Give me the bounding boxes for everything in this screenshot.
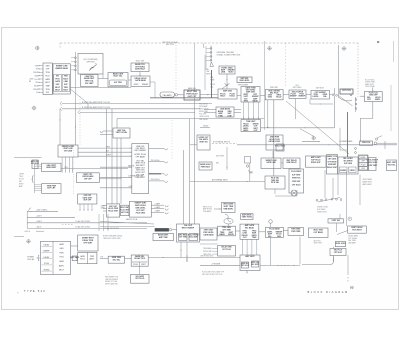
- svg-text:OUT TIME: OUT TIME: [179, 237, 188, 239]
- svg-text:AMPL: AMPL: [375, 98, 381, 101]
- svg-text:CAL AMPL: CAL AMPL: [163, 94, 172, 97]
- svg-text:PICK OFF: PICK OFF: [199, 114, 206, 116]
- svg-text:AMPL: AMPL: [90, 258, 95, 261]
- svg-text:PWR UNIT: PWR UNIT: [270, 87, 278, 89]
- svg-text:GATE BASE: GATE BASE: [203, 234, 214, 237]
- svg-text:ALT: ALT: [106, 150, 109, 153]
- svg-text:AMPL: AMPL: [59, 264, 64, 267]
- svg-text:LINE: LINE: [221, 72, 226, 74]
- svg-text:HOLD: HOLD: [80, 259, 86, 261]
- svg-text:+ GATE: + GATE: [154, 206, 161, 209]
- svg-text:+150 V: +150 V: [36, 221, 43, 223]
- svg-text:SIGNAL TO AMPLIFIER UNIT: SIGNAL TO AMPLIFIER UNIT: [217, 53, 242, 56]
- svg-text:GEN: GEN: [268, 97, 273, 99]
- svg-text:GATE BASE: GATE BASE: [135, 79, 147, 82]
- svg-text:SUP VERT: SUP VERT: [292, 174, 301, 176]
- svg-text:-150 V: -150 V: [36, 227, 42, 229]
- svg-text:A VERTICAL AMPLIFIER PLUG IN: A VERTICAL AMPLIFIER PLUG IN: [82, 101, 111, 104]
- svg-text:SEL BASE: SEL BASE: [245, 226, 255, 229]
- svg-text:TIME: TIME: [249, 173, 253, 175]
- svg-text:TIME LINE: TIME LINE: [203, 254, 211, 256]
- svg-text:OFF VERT: OFF VERT: [83, 243, 93, 245]
- svg-text:TO ALL SECTIONS: TO ALL SECTIONS: [75, 220, 91, 223]
- svg-text:GATE LINE: GATE LINE: [266, 161, 276, 164]
- svg-text:PICK SEL: PICK SEL: [271, 182, 280, 184]
- svg-text:TO ALL SECTIONS: TO ALL SECTIONS: [104, 227, 120, 230]
- svg-text:TRIG SIG A: TRIG SIG A: [151, 159, 161, 162]
- svg-text:CRT HOLD: CRT HOLD: [292, 184, 301, 186]
- svg-text:120V AC: 120V AC: [27, 258, 35, 261]
- svg-text:TRIG: TRIG: [106, 147, 111, 149]
- svg-text:PLUG BASE: PLUG BASE: [269, 228, 280, 231]
- svg-text:AMP GEN: AMP GEN: [223, 89, 232, 92]
- svg-text:PWR PICK: PWR PICK: [292, 178, 301, 180]
- svg-text:DRIVE: DRIVE: [350, 170, 356, 172]
- svg-text:DELAY: DELAY: [203, 124, 209, 127]
- svg-text:HOLD UNIT: HOLD UNIT: [108, 211, 119, 213]
- svg-text:GEN SWEEP CRT: GEN SWEEP CRT: [105, 277, 118, 279]
- svg-text:SIG PICK: SIG PICK: [314, 240, 322, 242]
- svg-text:VERT OUT: VERT OUT: [251, 262, 259, 264]
- svg-text:GATE: GATE: [59, 243, 65, 246]
- svg-text:PLUG: PLUG: [361, 164, 366, 166]
- svg-text:GATE: GATE: [45, 78, 51, 81]
- svg-text:CRT GATE: CRT GATE: [328, 158, 337, 161]
- svg-text:MULT CAL: MULT CAL: [113, 75, 123, 78]
- svg-text:OFF OFF: OFF OFF: [84, 179, 93, 181]
- svg-text:DRIVE LINE: DRIVE LINE: [199, 111, 208, 113]
- svg-text:GATE: GATE: [59, 260, 65, 263]
- svg-text:HOLD: HOLD: [276, 97, 282, 99]
- svg-text:LINE BASE: LINE BASE: [220, 107, 231, 110]
- svg-text:TO ALL SECTIONS: TO ALL SECTIONS: [75, 225, 91, 228]
- svg-text:DELAY: DELAY: [44, 244, 51, 247]
- svg-text:BASE: BASE: [219, 233, 225, 236]
- svg-text:CRT TIME: CRT TIME: [222, 229, 231, 231]
- svg-text:VERT: VERT: [35, 65, 39, 67]
- svg-text:+ GATE: + GATE: [154, 203, 161, 206]
- svg-text:SWEEP: SWEEP: [290, 96, 298, 98]
- svg-text:MULT: MULT: [228, 72, 234, 74]
- svg-text:OFF PLUG: OFF PLUG: [135, 278, 145, 280]
- svg-text:TIME UNIT: TIME UNIT: [246, 121, 256, 123]
- svg-text:SUP CRT: SUP CRT: [47, 188, 56, 190]
- svg-text:TRIG: TRIG: [64, 76, 69, 78]
- svg-text:CRT HOLD: CRT HOLD: [241, 265, 250, 267]
- svg-text:UNIT CAL: UNIT CAL: [121, 211, 129, 214]
- svg-text:M SWEEP GATE: M SWEEP GATE: [340, 140, 354, 143]
- svg-text:OUT: OUT: [100, 257, 103, 259]
- svg-text:CAL: CAL: [210, 85, 214, 88]
- svg-text:CRT PICK: CRT PICK: [342, 90, 352, 92]
- svg-text:DRIVE UNIT: DRIVE UNIT: [203, 251, 212, 253]
- svg-text:GATE: GATE: [55, 80, 61, 83]
- svg-text:PWR: PWR: [59, 252, 64, 254]
- svg-text:OUT BASE: OUT BASE: [314, 231, 324, 234]
- svg-text:VERT HORIZ: VERT HORIZ: [242, 217, 252, 219]
- svg-text:PWR UNIT: PWR UNIT: [292, 181, 301, 183]
- svg-text:PWR TIME: PWR TIME: [291, 231, 301, 233]
- svg-text:PLUG: PLUG: [133, 264, 138, 266]
- svg-text:SAWTOOTH A: SAWTOOTH A: [126, 218, 138, 221]
- svg-text:+12.6 V: +12.6 V: [24, 231, 31, 233]
- svg-text:SUP MULT: SUP MULT: [316, 88, 324, 90]
- svg-text:SIG TRIG: SIG TRIG: [114, 82, 122, 84]
- svg-text:OUT PLUG: OUT PLUG: [222, 249, 231, 251]
- svg-text:GEN DELAY: GEN DELAY: [286, 161, 297, 164]
- svg-text:TYPE 543: TYPE 543: [24, 289, 46, 293]
- svg-text:VERT SIG: VERT SIG: [199, 141, 208, 143]
- svg-text:HOLD: HOLD: [230, 96, 236, 98]
- svg-text:SEL UNIT HORIZ CRT PICK: SEL UNIT HORIZ CRT PICK: [202, 274, 223, 276]
- svg-text:HORIZ VERT: HORIZ VERT: [367, 165, 377, 167]
- svg-text:VERT SIG: VERT SIG: [332, 220, 341, 222]
- svg-text:AMPL AMPL: AMPL AMPL: [363, 183, 373, 186]
- svg-text:TRIG SIG B: TRIG SIG B: [151, 179, 161, 181]
- svg-text:CRT LINE: CRT LINE: [64, 150, 73, 152]
- svg-text:TIME LEVEL: TIME LEVEL: [317, 211, 327, 213]
- svg-text:BASE HOLD: BASE HOLD: [200, 163, 211, 166]
- svg-text:TIME: TIME: [218, 115, 223, 117]
- svg-text:REST SWEEP: REST SWEEP: [182, 227, 195, 229]
- svg-text:B VERTICAL AMPLIFIER PLUG IN: B VERTICAL AMPLIFIER PLUG IN: [82, 106, 111, 109]
- svg-text:LINE HORIZ GRID: LINE HORIZ GRID: [200, 256, 214, 258]
- svg-text:A EXTERNAL INPUT: A EXTERNAL INPUT: [212, 179, 228, 182]
- svg-text:E EXTERNAL INPUTS: E EXTERNAL INPUTS: [213, 140, 231, 143]
- svg-text:VERT TRIG: VERT TRIG: [314, 243, 323, 245]
- svg-text:REST PLUG: REST PLUG: [203, 207, 213, 209]
- svg-text:GRID: GRID: [134, 84, 139, 86]
- svg-text:LEVEL HORIZ: LEVEL HORIZ: [367, 162, 378, 164]
- svg-text:53: 53: [350, 286, 354, 290]
- svg-text:GRID REST: GRID REST: [46, 167, 57, 169]
- svg-text:LEVEL DRIVE: LEVEL DRIVE: [199, 116, 209, 118]
- svg-text:SWEEP: SWEEP: [33, 89, 39, 91]
- svg-text:DELAY: DELAY: [44, 256, 51, 259]
- svg-text:VERT: VERT: [141, 264, 145, 266]
- svg-text:LEVEL SWEEP: LEVEL SWEEP: [367, 160, 379, 162]
- svg-text:OFF BASE: OFF BASE: [136, 155, 146, 158]
- svg-text:GRID AMP: GRID AMP: [328, 163, 337, 166]
- svg-text:GATE: GATE: [80, 255, 86, 258]
- svg-text:PWR PICK: PWR PICK: [362, 142, 371, 144]
- svg-text:SUP GEN: SUP GEN: [344, 163, 353, 165]
- svg-text:TIME HOLD VERT GRID: TIME HOLD VERT GRID: [103, 238, 122, 240]
- svg-text:SWEEP BASE: SWEEP BASE: [55, 67, 68, 70]
- svg-text:+ GATE: + GATE: [154, 210, 161, 213]
- svg-text:MULT SUP: MULT SUP: [136, 61, 145, 63]
- svg-text:PWR MULT: PWR MULT: [201, 167, 211, 169]
- svg-text:TRIG: TRIG: [59, 257, 64, 259]
- svg-text:GEN LEVEL: GEN LEVEL: [239, 80, 250, 82]
- svg-text:GEN: GEN: [46, 65, 51, 67]
- svg-text:SWEEP: SWEEP: [142, 84, 149, 86]
- svg-text:DELAY PICK: DELAY PICK: [134, 257, 145, 260]
- svg-text:LEVEL HOLD: LEVEL HOLD: [335, 243, 346, 245]
- svg-text:MULT SEL: MULT SEL: [388, 165, 396, 167]
- svg-text:UNIT PWR: UNIT PWR: [216, 156, 225, 158]
- svg-text:GATE MULT: GATE MULT: [135, 68, 146, 71]
- svg-text:DELAY UNIT: DELAY UNIT: [327, 166, 338, 169]
- svg-text:BASE: BASE: [253, 99, 259, 102]
- svg-text:OFF: OFF: [361, 168, 364, 170]
- svg-text:MULT: MULT: [220, 96, 226, 98]
- svg-text:CONTRA BUS LINE: CONTRA BUS LINE: [128, 175, 144, 178]
- svg-text:DRIVE: DRIVE: [206, 73, 211, 75]
- svg-text:HOLD AMP: HOLD AMP: [189, 236, 199, 239]
- svg-text:OFF DRIVE: OFF DRIVE: [327, 161, 337, 163]
- svg-text:PICK GRID: PICK GRID: [136, 213, 146, 215]
- svg-text:SWEEP: SWEEP: [33, 72, 39, 74]
- svg-text:TIME: TIME: [252, 237, 257, 239]
- svg-text:LINE AMP: LINE AMP: [348, 241, 357, 244]
- svg-text:SWEEP PICK: SWEEP PICK: [327, 156, 338, 158]
- svg-text:UNIT GRID: UNIT GRID: [293, 87, 302, 89]
- svg-text:BLOCK DIAGRAM: BLOCK DIAGRAM: [308, 290, 349, 294]
- svg-text:DRIVE SUP: DRIVE SUP: [311, 162, 321, 164]
- svg-text:SIG VERT: SIG VERT: [85, 83, 94, 85]
- svg-text:DRIVE: DRIVE: [228, 234, 235, 236]
- svg-text:OFF TRIG: OFF TRIG: [86, 61, 95, 63]
- svg-text:SEL: SEL: [216, 163, 219, 165]
- svg-text:SECTION: SECTION: [166, 44, 175, 46]
- svg-text:TRIG: TRIG: [64, 87, 69, 89]
- svg-text:+225 V: +225 V: [36, 216, 43, 218]
- svg-text:CHOP: CHOP: [106, 155, 112, 157]
- svg-text:SUP: SUP: [36, 69, 39, 71]
- svg-text:SWEEP: SWEEP: [340, 170, 347, 172]
- svg-text:SAWT A: SAWT A: [128, 165, 135, 168]
- svg-text:GRID SUP: GRID SUP: [241, 263, 250, 265]
- svg-text:DRIVE LEVEL: DRIVE LEVEL: [269, 141, 282, 143]
- svg-text:LEVEL: LEVEL: [360, 157, 365, 159]
- svg-text:PWR SWEEP: PWR SWEEP: [238, 85, 249, 87]
- svg-text:+500 V (DEC): +500 V (DEC): [36, 210, 48, 212]
- svg-text:TRIG: TRIG: [45, 89, 50, 91]
- svg-text:PICK: PICK: [55, 78, 60, 80]
- svg-text:TIME AMPL: TIME AMPL: [223, 208, 234, 211]
- svg-text:SEL VERT: SEL VERT: [251, 264, 259, 266]
- svg-text:LINE SIG SWEEP: LINE SIG SWEEP: [105, 279, 118, 281]
- svg-text:OFF: OFF: [361, 161, 364, 163]
- svg-text:SEL SEL: SEL SEL: [113, 260, 121, 262]
- svg-text:SWEEP: SWEEP: [298, 96, 306, 98]
- svg-text:LEVEL: LEVEL: [313, 96, 320, 98]
- svg-text:CRT MULT: CRT MULT: [334, 252, 343, 254]
- svg-text:PWR DRIVE: PWR DRIVE: [199, 104, 208, 106]
- svg-text:LINE: LINE: [206, 71, 209, 73]
- svg-text:TRIG: TRIG: [244, 100, 249, 102]
- svg-text:+ TRIGGER: + TRIGGER: [211, 264, 221, 266]
- svg-text:SUP OFF: SUP OFF: [83, 200, 92, 202]
- svg-text:AMPL: AMPL: [243, 129, 249, 132]
- svg-text:PLUG DRIVE: PLUG DRIVE: [291, 171, 302, 173]
- svg-text:TRIG: TRIG: [45, 72, 50, 74]
- svg-text:VERT LEVEL: VERT LEVEL: [116, 132, 129, 134]
- svg-text:UNIT SWEEP: UNIT SWEEP: [134, 150, 146, 152]
- svg-text:BASE SIG: BASE SIG: [188, 87, 197, 90]
- svg-text:AMP TIME: AMP TIME: [159, 236, 169, 239]
- svg-text:TRIG DELAY: TRIG DELAY: [365, 85, 376, 88]
- svg-text:HOLD HOLD: HOLD HOLD: [275, 145, 286, 147]
- svg-text:PICK REST: PICK REST: [352, 229, 362, 231]
- svg-text:GEN: GEN: [277, 236, 282, 238]
- svg-text:AMP VERT: AMP VERT: [245, 255, 255, 258]
- svg-text:LINE: LINE: [227, 115, 232, 117]
